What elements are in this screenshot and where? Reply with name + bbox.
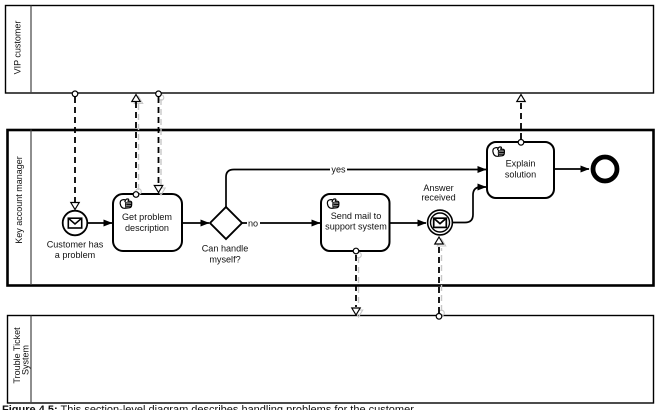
svg-text:support system: support system [325, 222, 387, 232]
caption: figure caption (clipped at bottom edge) [2, 404, 414, 410]
message flow: Trouble Ticket System to intermediate event (ghost) [437, 239, 445, 316]
svg-text:yes: yes [331, 165, 346, 175]
svg-text:received: received [421, 192, 455, 202]
task T2: Send mail to support system [321, 194, 390, 251]
task T3: Explain solution [487, 142, 554, 198]
svg-text:description: description [125, 223, 169, 233]
message flow: task Get problem description to VIP customer (ghost) [134, 97, 142, 195]
svg-text:System: System [21, 345, 31, 375]
message flow: task Get problem description to VIP customer [132, 95, 140, 198]
message flow: task Explain solution to VIP customer [517, 95, 525, 146]
message flow: VIP customer to task Get problem description (ghost) [157, 95, 165, 195]
gateway: Can handle myself? [202, 207, 249, 264]
message flow: task Send mail to Trouble Ticket System [352, 248, 360, 315]
svg-text:myself?: myself? [209, 254, 240, 264]
sequence flow (yes branch): gateway to task Explain solution [226, 170, 486, 209]
start event: Customer has a problem [47, 211, 104, 261]
sequence flow: task Send mail to intermediate event [390, 222, 426, 224]
pool: VIP customer [6, 6, 654, 94]
message flow: VIP customer to start event [71, 91, 79, 210]
svg-text:Key account manager: Key account manager [14, 156, 24, 244]
sequence flow: task Explain solution to end event [554, 168, 589, 170]
svg-text:Get problem: Get problem [122, 212, 172, 222]
svg-text:Answer: Answer [423, 183, 453, 193]
sequence flow (no branch): gateway to task Send mail [242, 222, 320, 224]
sequence flow: start event to task Get problem description [88, 222, 112, 224]
end event [593, 157, 617, 181]
label no [247, 218, 260, 228]
svg-text:Send mail to: Send mail to [331, 211, 382, 221]
svg-text:solution: solution [505, 170, 536, 180]
svg-text:Explain: Explain [506, 159, 536, 169]
pool: Key account manager [8, 130, 654, 286]
svg-text:VIP customer: VIP customer [13, 21, 23, 75]
sequence flow: intermediate event to task Explain solution [453, 187, 486, 223]
svg-text:Can handle: Can handle [202, 244, 249, 254]
task T1: Get problem description [113, 194, 182, 251]
svg-text:no: no [248, 218, 258, 228]
message flow: task Send mail to Trouble Ticket System (ghost) [354, 252, 362, 317]
svg-text:a problem: a problem [55, 250, 95, 260]
intermediate message event: Answer received [421, 183, 455, 235]
sequence flow: task Get problem description to gateway [182, 222, 209, 224]
message flow: Trouble Ticket System to intermediate event [435, 237, 443, 319]
message flow: VIP customer to task Get problem description [154, 91, 162, 193]
label yes [330, 164, 347, 175]
pool: Trouble Ticket System [8, 316, 654, 404]
svg-text:Customer has: Customer has [47, 240, 104, 250]
